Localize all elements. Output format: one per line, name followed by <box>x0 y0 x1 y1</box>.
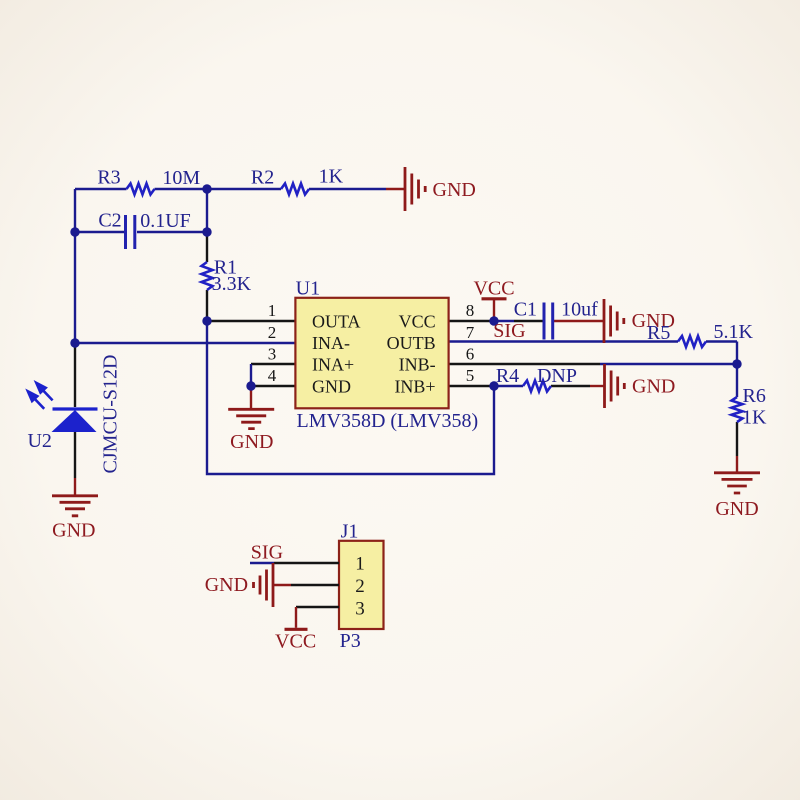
wire pin8 to C1 <box>514 320 543 322</box>
vcc symbol J1 <box>285 628 308 631</box>
ground LED <box>52 496 98 516</box>
wire gnd stub pin4 <box>250 386 252 409</box>
wire J1 pin1 <box>274 562 339 564</box>
wire LED anode <box>74 343 76 407</box>
svg-text:U1: U1 <box>296 277 320 299</box>
svg-text:GND: GND <box>230 431 273 453</box>
node pin8 junction <box>489 316 498 325</box>
wire pin6 <box>449 363 600 365</box>
wire R1 leads <box>206 232 208 321</box>
svg-text:OUTB: OUTB <box>387 333 436 353</box>
connector J1 <box>339 541 384 629</box>
svg-text:VCC: VCC <box>473 278 514 300</box>
op-amp U1 <box>295 298 448 409</box>
wire pin5 <box>449 385 494 387</box>
resistor R6 <box>732 397 743 422</box>
wire pin1 <box>207 320 296 322</box>
LED U2 <box>52 409 98 432</box>
svg-text:3: 3 <box>268 345 277 364</box>
svg-text:U2: U2 <box>27 430 51 452</box>
wire vcc stub <box>493 300 495 321</box>
svg-text:GND: GND <box>312 376 351 396</box>
svg-text:2: 2 <box>268 323 277 342</box>
svg-text:3.3K: 3.3K <box>212 273 252 295</box>
svg-text:10uf: 10uf <box>561 299 598 321</box>
svg-text:6: 6 <box>466 345 475 364</box>
node C2 left junction <box>70 227 79 236</box>
LED arrow 1 <box>36 383 52 401</box>
svg-text:SIG: SIG <box>251 541 283 563</box>
svg-text:GND: GND <box>433 179 476 201</box>
wire pin7 SIG <box>449 342 737 365</box>
svg-text:DNP: DNP <box>537 365 577 387</box>
capacitor C1 <box>544 303 553 340</box>
svg-text:LMV358D (LMV358): LMV358D (LMV358) <box>297 410 479 432</box>
node pin4 junction <box>246 381 255 390</box>
wire J1 vcc stub <box>295 607 297 628</box>
wire pin6 blue part <box>600 363 737 365</box>
svg-text:GND: GND <box>632 376 675 398</box>
wire left vertical <box>74 189 76 343</box>
wire mid vertical <box>206 189 208 232</box>
wire J1 pin2 stub <box>273 584 291 586</box>
svg-text:1K: 1K <box>319 165 344 187</box>
node pin6 junction <box>732 359 741 368</box>
svg-text:10M: 10M <box>162 167 200 189</box>
svg-text:J1: J1 <box>341 521 359 543</box>
wire J1 pin3 <box>296 606 339 608</box>
ground R4 <box>605 364 625 408</box>
wire R6 bottom lead <box>736 422 738 456</box>
svg-text:CJMCU-S12D: CJMCU-S12D <box>99 355 121 474</box>
wire pin3 <box>251 363 296 365</box>
svg-text:1: 1 <box>355 554 365 575</box>
svg-text:4: 4 <box>268 366 277 385</box>
resistor R3 <box>127 184 155 195</box>
svg-text:P3: P3 <box>340 630 361 652</box>
svg-text:2: 2 <box>355 576 365 597</box>
wire pin3 drop <box>250 364 252 386</box>
ground C1 <box>604 299 624 343</box>
ground J1 <box>254 563 274 607</box>
wire R4 to gnd <box>551 385 590 387</box>
node pin1 junction <box>202 316 211 325</box>
node pin2 junction <box>70 338 79 347</box>
svg-text:GND: GND <box>715 498 758 520</box>
svg-text:1K: 1K <box>742 407 767 429</box>
wire R2 gnd stub <box>386 188 406 190</box>
svg-text:INB-: INB- <box>399 354 436 374</box>
wire R4 gnd stub <box>590 385 605 387</box>
node A junction <box>202 184 211 193</box>
svg-text:R3: R3 <box>97 167 120 189</box>
svg-text:VCC: VCC <box>399 312 436 332</box>
wire R6 gnd stub <box>736 456 738 473</box>
resistor R1 <box>202 262 213 290</box>
svg-text:INA-: INA- <box>312 333 350 353</box>
resistor R5 <box>678 336 706 347</box>
wire R4 lead-in <box>494 385 523 387</box>
svg-text:C2: C2 <box>98 210 121 232</box>
capacitor C2 <box>126 215 135 249</box>
svg-text:5: 5 <box>466 366 475 385</box>
svg-text:0.1UF: 0.1UF <box>140 210 191 232</box>
svg-text:R2: R2 <box>251 166 274 188</box>
wire pin2 <box>75 342 296 344</box>
svg-text:INB+: INB+ <box>394 376 435 396</box>
wire LED cathode to gnd <box>74 432 76 478</box>
svg-text:R6: R6 <box>743 385 766 407</box>
wire pin4 <box>251 385 296 387</box>
svg-text:GND: GND <box>52 520 95 542</box>
node pin5 junction <box>489 381 498 390</box>
wire pin8 <box>449 320 494 322</box>
wire C2 row <box>75 231 207 233</box>
ground top-right <box>405 167 425 211</box>
wire J1 pin1 sig stub <box>250 562 274 564</box>
ground pin4 <box>228 409 274 428</box>
svg-text:GND: GND <box>205 574 248 596</box>
svg-text:SIG: SIG <box>493 320 525 342</box>
wire J1 pin2 <box>291 584 339 586</box>
resistor R4 <box>523 381 551 392</box>
svg-text:OUTA: OUTA <box>312 312 361 332</box>
svg-text:R5: R5 <box>647 322 670 344</box>
svg-text:C1: C1 <box>514 299 537 321</box>
svg-text:1: 1 <box>268 301 277 320</box>
resistor R2 <box>281 184 309 195</box>
svg-text:5.1K: 5.1K <box>713 321 753 343</box>
svg-text:7: 7 <box>466 323 475 342</box>
wire pin8 sig stub <box>494 320 514 322</box>
wire net-A top rail <box>75 188 386 190</box>
ground R6 <box>714 473 760 493</box>
wire feedback loop <box>207 321 494 474</box>
wire R6 top lead <box>736 364 738 397</box>
svg-text:VCC: VCC <box>275 631 316 653</box>
svg-text:8: 8 <box>466 301 475 320</box>
node C2 right junction <box>202 227 211 236</box>
wire C1 to gnd <box>554 320 604 322</box>
svg-text:3: 3 <box>355 598 365 619</box>
svg-text:R4: R4 <box>496 365 519 387</box>
vcc symbol top <box>482 297 507 300</box>
svg-text:INA+: INA+ <box>312 354 354 374</box>
LED arrow 2 <box>28 391 44 409</box>
